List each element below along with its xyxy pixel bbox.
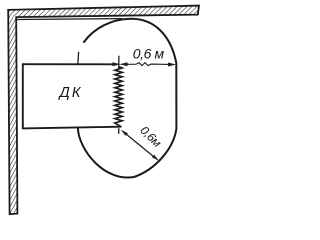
tick mark at grille top <box>118 56 120 69</box>
dimension 0,6 m diagonal: line <box>126 134 154 157</box>
box DK: top edge <box>22 63 114 65</box>
dimension horizontal: left arrowhead <box>119 62 127 66</box>
oval zone outline <box>78 19 177 178</box>
dimension 0,6 m horizontal: line <box>122 63 170 66</box>
box DK: left edge <box>22 64 24 130</box>
svg-text:0,6 м: 0,6 м <box>133 46 165 62</box>
dimension diagonal: upper arrowhead <box>121 130 128 136</box>
wall: L-shaped outline <box>8 6 199 215</box>
svg-text:ДК: ДК <box>58 85 83 101</box>
box DK: bottom edge <box>22 127 122 129</box>
tick mark left (oval hidden extent) <box>77 52 80 65</box>
dimension diagonal: lower arrowhead <box>152 155 159 161</box>
tick mark at grille bottom <box>118 128 120 134</box>
zigzag grille (spring) <box>115 67 123 127</box>
wall: top hatched band fill <box>8 6 199 18</box>
dimension horizontal: right arrowhead <box>168 63 176 67</box>
ceiling inner line <box>16 18 122 21</box>
wall: left hatched band fill <box>8 10 17 214</box>
box DK: top edge arrowhead <box>113 62 121 66</box>
